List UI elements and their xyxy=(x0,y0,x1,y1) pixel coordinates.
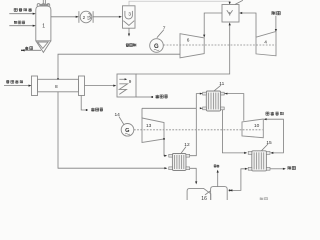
slag outlet arrow xyxy=(21,49,41,51)
pyrolysis oil outlet xyxy=(136,96,153,98)
callout 15 xyxy=(262,140,273,151)
callout 5 xyxy=(235,0,243,4)
pollutant outlet xyxy=(128,28,130,36)
svg-text:7: 7 xyxy=(163,26,166,32)
label rejieyou (pyrolysis oil) xyxy=(156,95,168,98)
label rejietan (pyrolysis char) xyxy=(91,108,103,111)
rotary kiln 8 xyxy=(32,76,85,96)
callout 11 xyxy=(214,81,225,91)
input arrow: gasifying agent xyxy=(9,25,35,27)
svg-text:1: 1 xyxy=(42,23,45,29)
turbine 13 inlet wire xyxy=(141,108,143,118)
air inlet xyxy=(275,16,277,32)
waste tire inlet arrow xyxy=(4,85,32,87)
svg-text:2: 2 xyxy=(83,15,86,20)
label kongqi (air) xyxy=(272,11,281,15)
scrubber 3 vessel xyxy=(123,6,136,28)
label haishui (seawater) xyxy=(288,166,296,169)
wire gasifier to purifier 2 xyxy=(51,16,79,18)
turbine 10 xyxy=(242,119,263,138)
seawater out wire xyxy=(270,168,286,170)
svg-text:8: 8 xyxy=(55,84,58,90)
generator 14 xyxy=(121,124,134,137)
wire 12 top-right up to heater 11 bottom-left xyxy=(190,108,197,155)
svg-text:9: 9 xyxy=(129,79,132,84)
cooler 15 xyxy=(248,151,270,171)
turbine 13 xyxy=(142,118,164,143)
flue gas wire kiln bottom to exchanger 12 xyxy=(58,92,167,169)
warm seawater wire 15 to desal 16 xyxy=(229,168,248,192)
svg-text:6: 6 xyxy=(187,38,190,44)
compressed air wire 4 to 5 xyxy=(239,12,256,37)
svg-text:14: 14 xyxy=(115,112,121,118)
label danshui (fresh water, faint bottom) xyxy=(260,198,268,201)
label feijiu luntai (waste tires) xyxy=(6,80,23,83)
input arrow: medical waste xyxy=(9,13,35,15)
gasifier 1 bottom cone xyxy=(36,41,51,53)
generator 7 xyxy=(150,39,164,53)
pyrolysis gas wire 9 to combustor 5 xyxy=(136,22,231,74)
callout 12 xyxy=(181,142,190,153)
svg-text:10: 10 xyxy=(254,123,260,129)
shaft dashed line bottom xyxy=(134,129,263,131)
label qihuaji (gasifying agent) xyxy=(14,21,25,24)
svg-text:13: 13 xyxy=(146,123,152,129)
label yiliao laji (medical waste) xyxy=(14,8,32,11)
label luzha (slag) xyxy=(25,47,33,50)
svg-text:12: 12 xyxy=(184,142,190,148)
callout 14 xyxy=(115,112,124,124)
wire 11 top-right to turbine 10 inlet xyxy=(224,93,244,121)
svg-text:G: G xyxy=(125,128,129,134)
separator 9 box xyxy=(117,74,136,97)
label paiyan (vent) xyxy=(214,165,220,168)
label eryanghuatan (carbon dioxide) xyxy=(266,112,284,115)
heater 11 xyxy=(203,91,225,111)
recuperator 12 xyxy=(169,154,190,171)
label wuranwu (pollutants) xyxy=(126,43,136,46)
svg-text:11: 11 xyxy=(219,81,224,87)
wire purifier 2 to scrubber 3 xyxy=(93,16,122,18)
turbine 13 exhaust wire to exchanger 12 xyxy=(163,138,167,157)
wire junction to 11 left ports xyxy=(196,93,202,110)
vent wire with up arrow xyxy=(217,170,219,187)
exhaust wire turbine 6 to kiln 8 xyxy=(57,54,180,80)
turbine 6 xyxy=(180,34,204,58)
wire 11 bottom-right down to cooler 15 xyxy=(222,110,247,154)
wire kiln 8 to separator 9 xyxy=(85,85,117,87)
desalination unit 16 left chamber xyxy=(187,188,211,200)
callout 7 xyxy=(157,26,166,38)
syngas top line 3 to combustor 5 xyxy=(129,1,230,6)
CO2 wire turbine 10 to cooler 15 xyxy=(264,118,284,154)
wire 12 bottom-right down to desal 16 xyxy=(190,168,198,184)
compressor 4 xyxy=(256,32,276,56)
svg-text:16: 16 xyxy=(201,196,207,200)
desalination unit 16 right chamber xyxy=(211,187,228,200)
svg-text:15: 15 xyxy=(266,140,272,146)
shaft dashed line top xyxy=(163,44,276,46)
purifier 2 (circle) xyxy=(79,11,93,23)
svg-text:3: 3 xyxy=(128,12,131,17)
combustor 5 box xyxy=(222,5,239,23)
char outlet wire xyxy=(81,96,87,112)
gasifier 1 vessel xyxy=(36,0,51,41)
hot gas wire combustor to turbine 6 xyxy=(203,13,222,38)
svg-text:G: G xyxy=(154,44,159,50)
